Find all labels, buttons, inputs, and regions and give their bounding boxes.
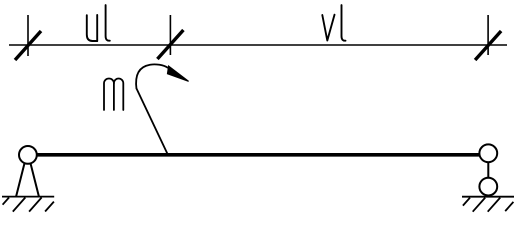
moment arrow	[136, 64, 189, 155]
label m	[104, 79, 123, 111]
beam	[37, 153, 479, 157]
right ground line	[462, 196, 514, 198]
tick right	[475, 15, 501, 60]
left ground hatching	[3, 198, 54, 212]
dimension line	[9, 44, 507, 46]
left ground line	[2, 196, 54, 198]
right support top circle	[479, 144, 497, 162]
label vl	[322, 5, 345, 41]
tick middle	[157, 15, 183, 59]
right support bottom circle	[479, 178, 497, 196]
right ground hatching	[463, 198, 514, 212]
left support triangle legs	[16, 163, 39, 196]
tick left	[15, 15, 41, 60]
left support pin circle	[19, 146, 37, 164]
label ul	[87, 5, 110, 41]
right support link	[487, 162, 489, 178]
